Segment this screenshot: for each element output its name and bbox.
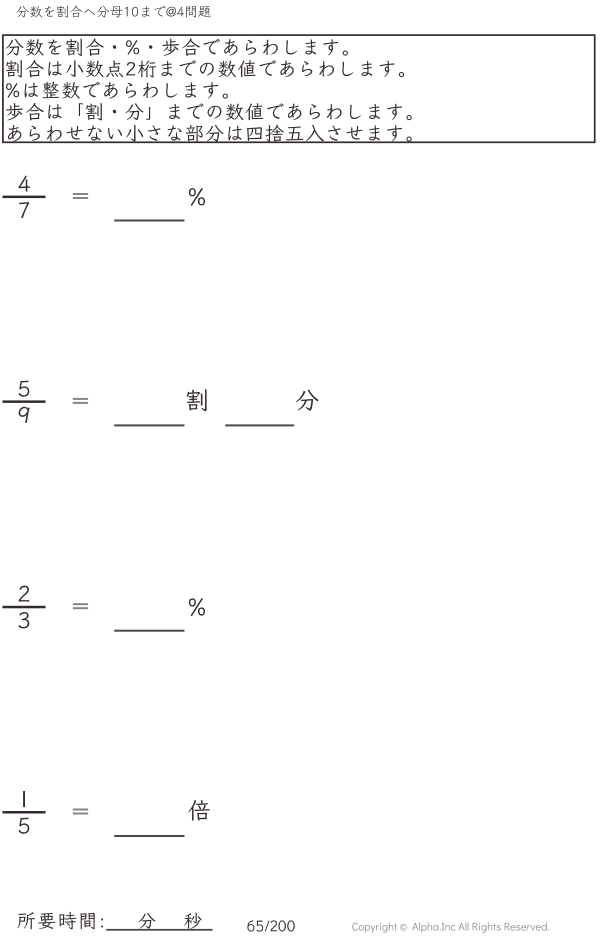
problem 4 denominator 5 [19,818,30,834]
problem 3 equals sign bottom stroke [73,607,88,609]
problem 2 numerator 5 [19,381,30,397]
problem 3 unit % [189,598,205,616]
problem 1 unit % [189,188,205,206]
problem 4 fraction bar [3,811,46,814]
problem 3 equals sign top stroke [73,603,88,605]
footer unit 秒 [184,913,201,929]
problem 1 numerator 4 [18,176,30,192]
problem 1 equals sign bottom stroke [73,197,88,199]
problem 3 fraction bar [3,606,46,609]
problem 2 unit 割 [187,389,207,411]
instruction line 4 [6,103,412,121]
instruction line 5 [8,125,412,142]
problem 1 answer blank underline [114,220,184,222]
problem 2 unit 分 [296,390,319,411]
problem 1 fraction bar [3,196,46,199]
problem 2 equals sign top stroke [73,398,88,400]
problem 4 unit 倍 [189,800,210,821]
problem 2 answer blank underline [114,424,184,426]
problem 4 numerator 1 (vertical stroke) [23,791,25,807]
problem 2 denominator 9 [19,407,30,423]
problem 4 equals sign top stroke [73,809,88,811]
problem 4 equals sign bottom stroke [73,813,88,815]
problem 2 second answer blank underline [225,424,294,426]
footer time blank underline [106,929,212,931]
problem 2 equals sign bottom stroke [73,402,88,404]
instruction box border [3,35,595,142]
instruction line 2 [6,60,404,78]
footer label 所要時間: [17,912,103,930]
instruction line 3 [6,82,228,99]
problem 1 equals sign top stroke [73,193,88,195]
footer copyright Alpha.Inc [352,922,549,932]
problem 4 answer blank underline [114,835,184,837]
problem 1 denominator 7 [19,202,29,218]
footer page number 65/200 [247,920,294,931]
problem 3 denominator 3 [19,612,30,628]
page title 分数を割合へ分母10まで@4問題 [16,5,210,17]
problem 3 numerator 2 [19,586,30,602]
problem 2 fraction bar [3,400,46,403]
footer unit 分 [138,913,155,929]
instruction line 1 [6,38,348,56]
problem 3 answer blank underline [114,630,184,632]
